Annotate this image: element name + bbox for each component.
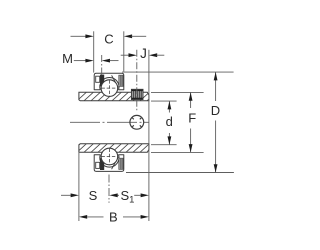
svg-text:J: J bbox=[140, 46, 147, 61]
dimension M bbox=[74, 60, 86, 62]
svg-text:B: B bbox=[109, 209, 118, 224]
ball (lower) bbox=[101, 148, 118, 165]
svg-text:d: d bbox=[166, 114, 173, 129]
svg-text:S: S bbox=[89, 188, 98, 203]
dimension J bbox=[121, 54, 130, 56]
dimension S1 left arrow bbox=[109, 193, 117, 197]
ball center marks upper bbox=[102, 87, 118, 89]
seal lip box left upper bbox=[96, 76, 100, 82]
horizontal centerline bbox=[70, 121, 149, 123]
seal lip box left lower bbox=[96, 162, 100, 168]
seal left (upper, dark) bbox=[100, 75, 104, 87]
dimension d extension lines bbox=[151, 100, 177, 102]
set screw axis (dash-dot) bbox=[136, 50, 138, 112]
ball (upper) bbox=[101, 80, 118, 97]
svg-text:F: F bbox=[188, 110, 196, 125]
svg-text:M: M bbox=[62, 51, 73, 66]
dimension S bbox=[61, 194, 71, 196]
ball center marks lower bbox=[102, 156, 118, 158]
seal right (lower, gray) bbox=[119, 158, 123, 169]
cage line lower bbox=[112, 157, 119, 169]
dimension D extension lines bbox=[122, 71, 234, 73]
dimension B bbox=[79, 215, 87, 219]
set screw hole on centerline bbox=[130, 115, 144, 129]
bearing vertical axis (bottom) bbox=[108, 175, 110, 203]
dimension d bbox=[168, 101, 170, 112]
outer ring lower section bbox=[94, 155, 124, 172]
dimension D bbox=[215, 72, 217, 101]
dimension F bbox=[190, 92, 192, 108]
dimension S1 right arrow bbox=[134, 194, 140, 196]
extension line right face (lower part) bbox=[148, 101, 150, 222]
outer ring upper section bbox=[94, 73, 124, 90]
seal right (upper, gray) bbox=[119, 75, 123, 86]
extension line left face of inner ring bbox=[78, 153, 80, 221]
svg-text:D: D bbox=[211, 103, 220, 118]
dimension C extension lines bbox=[93, 31, 95, 72]
seal left (lower, dark) bbox=[100, 158, 104, 170]
extension line right face of inner ring bbox=[148, 50, 150, 101]
dimension F extension lines bbox=[151, 91, 204, 93]
dimension C bbox=[71, 35, 87, 37]
set screw (upper, with thread lines) bbox=[131, 89, 143, 99]
svg-text:C: C bbox=[104, 32, 113, 47]
seal axis (dash-dot, M reference) bbox=[101, 55, 103, 76]
cage line upper bbox=[112, 75, 119, 87]
